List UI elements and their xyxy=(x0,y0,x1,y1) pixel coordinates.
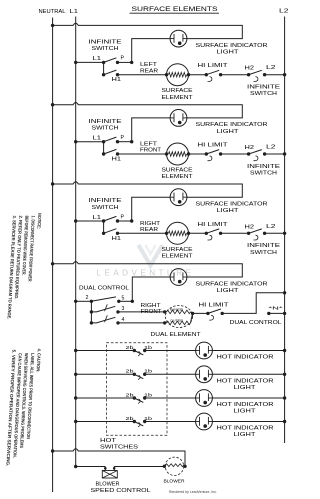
svg-text:2b: 2b xyxy=(126,345,135,350)
svg-text:SURFACE ELEMENTS: SURFACE ELEMENTS xyxy=(132,6,219,13)
wire dual control pole link xyxy=(90,301,92,323)
wire L1 bus xyxy=(75,17,77,467)
svg-text:INNER: INNER xyxy=(170,307,183,311)
wire hi-limit to H2 block 3 xyxy=(221,232,249,234)
svg-text:L2: L2 xyxy=(279,9,289,15)
hot switch 1 (2b-1b) xyxy=(133,349,136,352)
node L1 bus tap block 1 xyxy=(74,61,77,64)
wire L1 to blower speed control xyxy=(76,466,106,468)
hi-limit thermal switch block 3 xyxy=(205,232,208,235)
svg-text:INFINITE: INFINITE xyxy=(89,40,123,46)
svg-text:REAR: REAR xyxy=(140,68,158,74)
infinite switch S3b contact to H1 xyxy=(102,232,105,235)
indicator lamp DS4 SURFACE INDICATOR LIGHT xyxy=(170,269,187,286)
dual control switch contact 2-5 xyxy=(90,300,93,303)
node L2 bus tap block 4 xyxy=(283,291,286,294)
svg-text:HI LIMIT: HI LIMIT xyxy=(198,143,229,149)
hot indicator lamp DS5 xyxy=(196,342,213,359)
indicator lamp DS3 SURFACE INDICATOR LIGHT xyxy=(170,189,187,206)
wire L1 to hot switch 1 xyxy=(76,350,135,352)
svg-text:INFINITE: INFINITE xyxy=(247,243,281,249)
node L1 bus tap blower speed control xyxy=(74,465,77,468)
wire lamp to L2 row 3 xyxy=(212,397,285,399)
wire pole link block 3 xyxy=(103,221,105,233)
wire L1 feed block 1 xyxy=(76,61,104,63)
node P junction block 2 xyxy=(130,140,133,143)
svg-text:RIGHT: RIGHT xyxy=(140,221,161,227)
hi-limit thermal switch block 1 xyxy=(205,73,208,76)
infinite switch S2c contact H2-L2 xyxy=(247,152,250,155)
node neutral junction block 1 xyxy=(51,24,54,27)
hot indicator lamp DS7 xyxy=(196,390,213,407)
wire lamp to L2 row 1 xyxy=(212,350,285,352)
svg-text:HOT INDICATOR: HOT INDICATOR xyxy=(217,378,274,384)
indicator lamp DS1 SURFACE INDICATOR LIGHT xyxy=(170,30,187,47)
wire indicator loop top block 1 (hops L1) xyxy=(53,23,243,38)
svg-text:NOTICE:: NOTICE: xyxy=(36,213,42,230)
wire lamp to switch P block 3 xyxy=(132,197,171,221)
svg-text:HI LIMIT: HI LIMIT xyxy=(198,222,229,228)
svg-text:P: P xyxy=(121,214,125,220)
svg-text:HI LIMIT: HI LIMIT xyxy=(198,63,229,69)
wire hot switch 3 to lamp xyxy=(145,397,196,399)
node P junction block 3 xyxy=(130,219,133,222)
wire L1 feed block 3 xyxy=(76,220,104,222)
svg-text:2b: 2b xyxy=(126,369,135,374)
dual control switch contact 3 xyxy=(90,310,93,313)
node P junction block 1 xyxy=(130,61,133,64)
svg-text:FRONT: FRONT xyxy=(140,148,162,154)
svg-text:L2: L2 xyxy=(266,65,276,71)
svg-text:DUAL ELEMENT: DUAL ELEMENT xyxy=(151,332,202,338)
wire indicator loop top block 3 (hops L1) xyxy=(53,182,243,197)
svg-text:HOT INDICATOR: HOT INDICATOR xyxy=(217,426,274,432)
svg-text:BLOWER: BLOWER xyxy=(164,478,186,483)
wire L2 connection block 1 xyxy=(265,74,285,76)
wire neutral to blower (hops L1) xyxy=(53,449,185,467)
node L2 bus tap block 3 xyxy=(283,232,286,235)
svg-text:*N*: *N* xyxy=(269,306,283,312)
svg-text:SWITCH: SWITCH xyxy=(92,205,119,211)
hot switch 2 (2b-1b) xyxy=(133,373,136,376)
svg-text:L2: L2 xyxy=(266,224,276,230)
node L1 bus tap hot row 4 xyxy=(74,420,77,423)
svg-text:BLOWER: BLOWER xyxy=(96,482,120,488)
node neutral junction block 2 xyxy=(51,103,54,106)
svg-text:4: 4 xyxy=(122,317,125,323)
node L2 bus tap block 1 xyxy=(283,73,286,76)
svg-text:2b: 2b xyxy=(126,416,135,421)
node L1 bus tap block 3 xyxy=(74,219,77,222)
dual element R4 (dashed outline) xyxy=(165,306,192,328)
svg-text:NEUTRAL: NEUTRAL xyxy=(39,9,66,15)
infinite switch S3a contact L1-P xyxy=(102,219,105,222)
infinite switch S3c contact H2-L2 xyxy=(247,232,250,235)
svg-text:SURFACE INDICATOR: SURFACE INDICATOR xyxy=(196,122,268,128)
wire lamp to switch P block 2 xyxy=(132,118,171,142)
svg-text:LIGHT: LIGHT xyxy=(217,208,240,214)
wire speed control to blower xyxy=(114,466,164,468)
svg-text:REAR: REAR xyxy=(140,227,158,233)
svg-text:SWITCHES: SWITCHES xyxy=(100,445,139,451)
svg-text:2: 2 xyxy=(86,295,89,301)
wire hot switch 4 to lamp xyxy=(145,421,196,423)
hi-limit thermal switch block 2 xyxy=(205,152,208,155)
svg-text:Rendered by LeadVenture, Inc.: Rendered by LeadVenture, Inc. xyxy=(169,490,217,494)
svg-text:SWITCH: SWITCH xyxy=(92,46,119,52)
svg-text:H1: H1 xyxy=(112,77,122,83)
wire pole link block 1 xyxy=(103,62,105,74)
hot indicator lamp DS6 xyxy=(196,366,213,383)
wire pole link block 2 xyxy=(103,142,105,154)
svg-text:L1: L1 xyxy=(93,136,102,142)
wire lamp to terminal 5 block 4 xyxy=(132,277,170,301)
svg-text:LEFT: LEFT xyxy=(140,142,158,148)
node L2 bus tap hot row 1 xyxy=(283,349,286,352)
hot switches dashed enclosure xyxy=(106,343,167,436)
wire contact 4 to outer element xyxy=(118,322,165,324)
wire contact 3 to inner element xyxy=(118,311,165,313)
svg-text:SWITCH: SWITCH xyxy=(250,171,277,177)
svg-text:SPEED CONTROL: SPEED CONTROL xyxy=(91,488,151,494)
node L1 bus tap hot row 2 xyxy=(74,373,77,376)
wire L1 to hot switch 3 xyxy=(76,397,135,399)
hot indicator lamp DS8 xyxy=(196,413,213,430)
svg-text:SURFACE: SURFACE xyxy=(162,168,194,174)
blower speed control (rheostat box) xyxy=(102,471,117,479)
svg-text:ELEMENT: ELEMENT xyxy=(162,253,194,259)
wire L2 connection block 2 xyxy=(265,153,285,155)
svg-text:L2: L2 xyxy=(266,145,276,151)
hot switch 3 (2b-1b) xyxy=(133,396,136,399)
svg-text:H1: H1 xyxy=(112,236,122,242)
blower motor B1 (dashed) xyxy=(165,457,183,475)
svg-text:DUAL CONTROL: DUAL CONTROL xyxy=(79,285,129,291)
svg-text:L1: L1 xyxy=(93,215,102,221)
wire dual element output xyxy=(191,312,208,323)
svg-text:INFINITE: INFINITE xyxy=(89,119,123,125)
svg-text:H2: H2 xyxy=(245,145,255,151)
svg-text:SWITCH: SWITCH xyxy=(92,126,119,132)
wire lamp to L2 row 2 xyxy=(212,373,285,375)
svg-text:3: 3 xyxy=(122,306,125,312)
svg-text:INFINITE: INFINITE xyxy=(247,164,281,170)
svg-text:HI LIMIT: HI LIMIT xyxy=(199,302,230,308)
wire L2 connection block 3 xyxy=(265,232,285,234)
svg-text:5: 5 xyxy=(122,296,125,302)
indicator lamp DS2 SURFACE INDICATOR LIGHT xyxy=(170,110,187,127)
svg-text:LIGHT: LIGHT xyxy=(234,385,257,391)
wire L1 feed block 2 xyxy=(76,141,104,143)
node neutral tap blower xyxy=(51,449,54,452)
wire H1 to element block 2 xyxy=(118,153,167,155)
wire element to hi-limit block 2 xyxy=(189,153,207,155)
svg-text:SURFACE: SURFACE xyxy=(162,88,194,94)
wire hi-limit to L2 block 4 xyxy=(222,293,284,314)
wire hot switch 2 to lamp xyxy=(145,373,196,375)
wire L1 to hot switch 2 xyxy=(76,373,135,375)
wire L1 feed dual control xyxy=(76,300,92,302)
wire indicator loop top block 4 (hops L1) xyxy=(53,262,243,277)
wire hi-limit to H2 block 2 xyxy=(221,153,249,155)
svg-text:HOT INDICATOR: HOT INDICATOR xyxy=(217,402,274,408)
hot switch 4 (2b-1b) xyxy=(133,420,136,423)
svg-text:RIGHT: RIGHT xyxy=(141,303,162,309)
svg-text:LIGHT: LIGHT xyxy=(234,432,257,438)
node L1 bus tap hot row 1 xyxy=(74,349,77,352)
svg-text:LEFT: LEFT xyxy=(140,62,158,68)
node L2 bus tap *N* xyxy=(283,312,286,315)
wire lamp to switch P block 1 xyxy=(132,39,171,63)
svg-text:LEADVENTURE: LEADVENTURE xyxy=(97,269,195,278)
svg-text:LIGHT: LIGHT xyxy=(234,409,257,415)
svg-text:INFINITE: INFINITE xyxy=(89,198,123,204)
svg-text:H1: H1 xyxy=(112,157,122,163)
svg-text:SWITCH: SWITCH xyxy=(250,250,277,256)
watermark logo xyxy=(139,245,163,266)
svg-text:H2: H2 xyxy=(245,224,255,230)
svg-text:LIGHT: LIGHT xyxy=(217,50,240,56)
wire element to hi-limit block 3 xyxy=(189,232,207,234)
node L2 bus tap hot row 2 xyxy=(283,373,286,376)
wire hi-limit to H2 block 1 xyxy=(221,74,249,76)
svg-text:P: P xyxy=(121,56,125,62)
svg-text:H2: H2 xyxy=(245,66,255,72)
svg-text:HOT INDICATOR: HOT INDICATOR xyxy=(217,355,274,361)
svg-text:DUAL CONTROL: DUAL CONTROL xyxy=(230,320,282,326)
wire lamp to L2 row 4 xyxy=(212,421,285,423)
node L2 bus tap block 2 xyxy=(283,152,286,155)
node L1 bus tap block 2 xyxy=(74,140,77,143)
dual element inner winding xyxy=(163,310,166,313)
surface element R1 xyxy=(167,64,189,86)
infinite switch S2b contact to H1 xyxy=(102,152,105,155)
svg-text:INFINITE: INFINITE xyxy=(247,85,281,91)
svg-text:LIGHT: LIGHT xyxy=(217,288,240,294)
node L1 bus tap hot row 3 xyxy=(74,396,77,399)
node L2 bus tap hot row 3 xyxy=(283,396,286,399)
surface element R3 xyxy=(167,222,189,244)
svg-text:SWITCH: SWITCH xyxy=(250,91,277,97)
svg-text:P: P xyxy=(121,135,125,141)
wire *N* stub xyxy=(267,312,270,315)
infinite switch S1b contact to H1 xyxy=(102,73,105,76)
svg-text:HOT: HOT xyxy=(100,438,117,444)
wire neutral bus xyxy=(52,18,54,493)
infinite switch S2a contact L1-P xyxy=(102,140,105,143)
hi-limit thermal switch block 4 xyxy=(206,312,209,315)
node neutral junction block 4 xyxy=(51,262,54,265)
svg-text:SURFACE INDICATOR: SURFACE INDICATOR xyxy=(196,202,268,208)
infinite switch S1a contact L1-P xyxy=(102,61,105,64)
svg-text:LIGHT: LIGHT xyxy=(217,129,240,135)
wire L1 to hot switch 4 xyxy=(76,421,135,423)
svg-text:OUTER: OUTER xyxy=(170,318,183,322)
wire H1 to element block 3 xyxy=(118,232,167,234)
node neutral junction block 3 xyxy=(51,182,54,185)
svg-text:L1: L1 xyxy=(93,56,102,62)
svg-text:L1: L1 xyxy=(70,9,79,15)
wire L2 bus xyxy=(284,17,286,444)
infinite switch S1c contact H2-L2 xyxy=(247,73,250,76)
svg-text:2b: 2b xyxy=(126,392,135,397)
wire indicator loop top block 2 (hops L1) xyxy=(53,103,243,118)
svg-text:ELEMENT: ELEMENT xyxy=(162,174,194,180)
svg-text:SURFACE INDICATOR: SURFACE INDICATOR xyxy=(196,43,268,49)
surface element R2 xyxy=(167,143,189,165)
node L1 bus tap block 4 xyxy=(74,300,77,303)
wire H1 to element block 1 xyxy=(118,74,167,76)
svg-text:ELEMENT: ELEMENT xyxy=(162,95,194,101)
svg-text:SURFACE INDICATOR: SURFACE INDICATOR xyxy=(196,281,268,287)
dual element outer winding xyxy=(163,321,166,324)
dual control switch contact 4 xyxy=(90,321,93,324)
svg-text:FRONT: FRONT xyxy=(141,309,163,315)
svg-text:SURFACE: SURFACE xyxy=(162,247,194,253)
node L2 bus tap hot row 4 xyxy=(283,420,286,423)
wire element to hi-limit block 1 xyxy=(189,74,207,76)
wire hot switch 1 to lamp xyxy=(145,350,196,352)
node terminal 5 junction xyxy=(131,300,134,303)
